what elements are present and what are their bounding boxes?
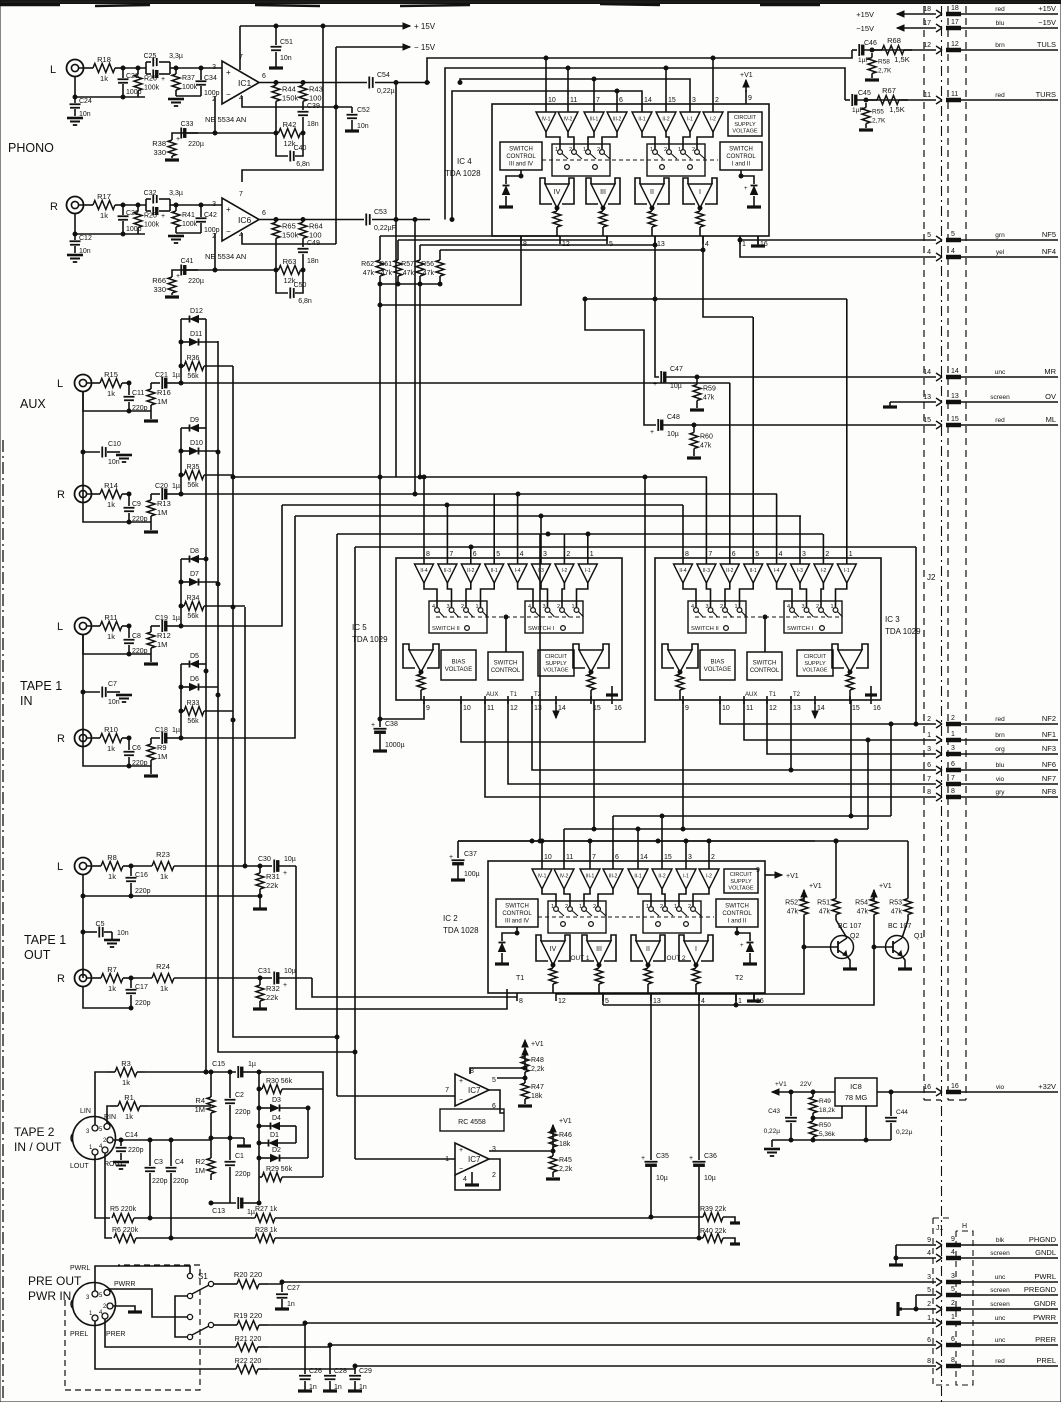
svg-text:L: L: [57, 621, 63, 633]
svg-text:I-4: I-4: [515, 568, 521, 574]
resistor R53: [889, 893, 912, 920]
resistor R6: [112, 1227, 255, 1243]
svg-text:7: 7: [449, 551, 453, 558]
wire R37 C34 ground: [168, 96, 201, 106]
svg-text:D10: D10: [190, 440, 203, 447]
IC 3 bottom pin 15: [850, 696, 860, 712]
svg-text:220p: 220p: [173, 1178, 189, 1185]
IC 4 input pin 6 buffer III-2: [607, 96, 627, 132]
svg-text:OUT 2: OUT 2: [666, 955, 685, 962]
ground rail L bar: [253, 896, 267, 909]
svg-text:R: R: [50, 201, 58, 213]
ground R12: [144, 654, 158, 664]
IC3 top pin riser 4: [776, 494, 778, 550]
svg-text:CONTROL: CONTROL: [726, 154, 756, 160]
IC4 pin 4 down to R56: [440, 236, 705, 252]
resistor R26: [136, 66, 140, 70]
svg-text:5: 5: [927, 232, 931, 239]
svg-text:R28 1k: R28 1k: [255, 1227, 278, 1234]
node C16: [129, 864, 133, 868]
svg-text:CIRCUIT: CIRCUIT: [730, 872, 753, 878]
wire R21 to PRER pin: [268, 1343, 936, 1347]
wire C37 top rail: [458, 839, 815, 843]
svg-text:5,36k: 5,36k: [819, 1131, 836, 1138]
IC2 pin 13 down to C35: [650, 993, 652, 1160]
IC 2 output amplifier IV: [536, 935, 570, 967]
resistor R31: [256, 866, 280, 896]
svg-text:3: 3: [447, 604, 450, 610]
svg-text:C29: C29: [359, 1368, 372, 1375]
svg-text:SWITCH II: SWITCH II: [691, 626, 719, 632]
svg-text:MR: MR: [1044, 367, 1056, 376]
resistor R28: [255, 1227, 699, 1243]
svg-text:10n: 10n: [357, 123, 369, 130]
IC 2 input pin 14 buffer II-1: [628, 853, 648, 889]
connector pin 2 NF2: [927, 714, 1058, 728]
IC block IC 3 TDA 1029 outline: [655, 558, 881, 700]
IC 5 buffer to switch wire: [481, 583, 495, 607]
svg-text:100k: 100k: [144, 85, 160, 92]
IC 4 switch box 2: [647, 144, 705, 176]
svg-text:II-2: II-2: [726, 568, 733, 574]
svg-text:R51: R51: [817, 900, 830, 907]
riser 916 to NF2: [914, 547, 918, 726]
capacitor C24: [67, 97, 92, 125]
connector dash-dot centre line: [941, 6, 943, 1402]
svg-text:C34: C34: [204, 75, 217, 82]
svg-text:18n: 18n: [307, 258, 319, 265]
IC 2 output amplifier II: [631, 935, 665, 967]
node after R18: [121, 66, 125, 70]
resistor R47: [521, 1078, 544, 1104]
+15V rail: [240, 22, 436, 31]
svg-text:IC1: IC1: [238, 78, 252, 88]
svg-text:III-1: III-1: [586, 873, 595, 879]
IC 4 buffer to switch wire: [546, 132, 560, 149]
+V1 arrow IC8 left: [772, 1081, 812, 1095]
svg-text:C27: C27: [287, 1285, 300, 1292]
wire AUX L signal: [181, 382, 730, 384]
wire tape1out R ground rail: [83, 987, 133, 1010]
wire +15V arrow left: [856, 10, 936, 19]
resistor R51: [817, 893, 840, 920]
capacitor C52: [345, 107, 370, 131]
resistor R62: [361, 252, 384, 284]
svg-text:C49: C49: [307, 240, 320, 247]
node R35 left: [179, 473, 183, 477]
svg-text:C5: C5: [96, 921, 105, 928]
diode D3: [257, 1097, 310, 1112]
svg-text:6: 6: [262, 210, 266, 217]
ground R60: [687, 456, 701, 459]
capacitor C12: [67, 234, 92, 262]
connector pin 12 TULS: [923, 40, 1058, 54]
svg-text:C33: C33: [181, 121, 194, 128]
svg-text:C24: C24: [79, 98, 92, 105]
IC7b ground pin4: [465, 1172, 479, 1185]
svg-text:1: 1: [583, 147, 586, 153]
svg-text:D8: D8: [190, 548, 199, 555]
IC3 pin 11 route NF1: [744, 700, 936, 740]
svg-text:+: +: [740, 943, 744, 949]
svg-text:C15: C15: [212, 1061, 225, 1068]
IC 2 switch dashed line: [538, 916, 714, 918]
IC 5 buffer to switch wire: [447, 583, 451, 607]
svg-text:I-2: I-2: [710, 116, 716, 122]
svg-text:C20: C20: [155, 483, 168, 490]
svg-text:10n: 10n: [117, 930, 129, 937]
wire TAPE1 R signal: [181, 516, 295, 738]
svg-text:3: 3: [692, 97, 696, 104]
IC 4 bottom pin 1: [740, 236, 746, 248]
svg-text:1: 1: [927, 1315, 931, 1322]
wire AUX L lower rail: [83, 392, 151, 413]
svg-text:2: 2: [927, 716, 931, 723]
svg-text:III and IV: III and IV: [505, 919, 529, 925]
IC 2 input pin 15 buffer II-2: [652, 853, 672, 889]
svg-text:SWITCH: SWITCH: [494, 660, 518, 666]
svg-text:I-2: I-2: [561, 568, 567, 574]
resistor R33: [181, 700, 233, 725]
svg-text:VOLTAGE: VOLTAGE: [728, 886, 753, 892]
svg-text:15: 15: [852, 705, 860, 712]
resistor R48: [521, 1050, 545, 1078]
resistor R61: [379, 252, 402, 284]
svg-text:4: 4: [951, 248, 955, 255]
svg-text:R60: R60: [700, 434, 713, 441]
IC 4 output amplifier IV: [540, 178, 574, 210]
svg-text:7: 7: [708, 551, 712, 558]
ground R58: [865, 78, 879, 81]
svg-text:2,2k: 2,2k: [559, 1166, 573, 1173]
svg-text:SUPPLY: SUPPLY: [545, 661, 567, 667]
svg-text:CIRCUIT: CIRCUIT: [734, 115, 757, 121]
svg-text:3: 3: [802, 604, 805, 610]
resistor R11: [93, 613, 129, 641]
capacitor C8: [124, 626, 148, 655]
IC 2 switch control I and II box: [716, 899, 758, 927]
svg-text:CONTROL: CONTROL: [502, 911, 532, 917]
svg-text:6: 6: [927, 1337, 931, 1344]
resistor R60 node: [692, 423, 696, 427]
resistor R27: [255, 1206, 651, 1223]
svg-text:100k: 100k: [182, 84, 198, 91]
capacitor C10: [81, 392, 132, 466]
svg-text:8: 8: [927, 789, 931, 796]
IC4 pin 12 down to R62: [380, 235, 560, 237]
svg-text:II-1: II-1: [638, 116, 645, 122]
IC5 top pin riser 4: [517, 494, 519, 550]
wire to C42: [176, 204, 222, 206]
svg-text:2: 2: [720, 604, 723, 610]
IC 2 input pin 3 buffer I-1: [676, 853, 696, 889]
svg-text:PRER: PRER: [106, 1331, 125, 1338]
wire R5 from LOUT: [95, 1155, 110, 1218]
svg-text:PWRR: PWRR: [114, 1281, 135, 1288]
svg-text:C12: C12: [79, 235, 92, 242]
svg-text:7: 7: [445, 1087, 449, 1094]
svg-text:C53: C53: [374, 209, 387, 216]
IC5 top pin riser 2: [563, 534, 565, 550]
IC5 top pin riser 6: [470, 547, 472, 550]
svg-text:4: 4: [432, 604, 435, 610]
svg-text:4: 4: [705, 241, 709, 248]
wire R4 R2 mid: [209, 1118, 213, 1152]
svg-text:100k: 100k: [182, 221, 198, 228]
IC5 top pin riser 7: [446, 505, 448, 550]
resistor R13: [147, 494, 171, 522]
page edge artifact top: [0, 0, 1061, 6]
node D11 left: [179, 340, 183, 344]
diode D9: [181, 417, 206, 432]
IC block IC 5 TDA 1029 outline: [396, 558, 622, 700]
svg-text:SUPPLY: SUPPLY: [734, 122, 756, 128]
svg-text:II-3: II-3: [444, 568, 451, 574]
svg-text:II-2: II-2: [658, 873, 665, 879]
svg-text:NF2: NF2: [1042, 714, 1056, 723]
svg-text:1µ: 1µ: [172, 483, 180, 490]
wire PHGND ground: [889, 1245, 936, 1265]
svg-text:2: 2: [688, 904, 691, 910]
connector pin 1 PWRR: [927, 1313, 1058, 1327]
svg-text:C14: C14: [125, 1132, 138, 1139]
IC 3 bottom pin 13: [791, 696, 801, 712]
resistor R12: [147, 626, 171, 654]
svg-text:2,7K: 2,7K: [872, 118, 886, 125]
switch S1: [187, 1272, 213, 1340]
svg-text:C3: C3: [154, 1159, 163, 1166]
svg-text:red: red: [995, 92, 1005, 99]
svg-text:R59: R59: [703, 386, 716, 393]
svg-text:4: 4: [779, 551, 783, 558]
svg-text:16: 16: [614, 705, 622, 712]
wire Q2 emitter ground: [843, 956, 857, 969]
wire IC4 pin 11 riser: [567, 68, 569, 96]
wire LIN to R3: [95, 1072, 107, 1125]
svg-text:C25: C25: [144, 53, 157, 60]
svg-text:12: 12: [769, 705, 777, 712]
IC2 pin 12 route: [555, 993, 557, 994]
resistor R9: [147, 738, 167, 766]
svg-text:+: +: [283, 982, 287, 989]
svg-text:3: 3: [706, 604, 709, 610]
resistor R40: [697, 1228, 740, 1244]
bus vertical from C54 node: [395, 83, 397, 478]
IC4 pin 16 ground: [751, 236, 765, 246]
IC3 top pin riser 7: [705, 477, 707, 550]
IC 3 input pin 6 buffer II-2: [720, 550, 739, 583]
bus line 547: [355, 545, 916, 1159]
IC5 top pin riser 1: [587, 534, 589, 550]
connector pin 16 +32V: [923, 1082, 1058, 1096]
connector pin 11 TURS: [924, 90, 1058, 104]
IC 4 buffer to switch wire: [683, 132, 690, 149]
svg-text:screen: screen: [990, 1301, 1010, 1308]
svg-text:AUX: AUX: [486, 692, 498, 698]
svg-text:+ 15V: + 15V: [414, 22, 436, 31]
svg-text:R8: R8: [107, 853, 117, 862]
svg-text:0,22µF: 0,22µF: [374, 225, 396, 232]
svg-text:2: 2: [951, 715, 955, 722]
svg-text:1k: 1k: [122, 1078, 130, 1087]
IC 2 bottom pin 8: [517, 993, 523, 1005]
IC 4 emitter resistor under IV: [553, 208, 561, 236]
svg-text:3,3µ: 3,3µ: [169, 53, 183, 60]
svg-text:47k: 47k: [403, 270, 415, 277]
svg-text:1k: 1k: [100, 211, 108, 220]
svg-text:C40: C40: [294, 145, 307, 152]
IC 5 pin 14 arrow: [555, 702, 557, 718]
wire NF4 from pin 1 column: [740, 240, 936, 257]
svg-text:1µ: 1µ: [172, 372, 180, 379]
svg-text:+V1: +V1: [786, 873, 799, 880]
op-amp IC1: [212, 54, 266, 104]
svg-text:7: 7: [927, 776, 931, 783]
ground R59: [690, 408, 704, 411]
capacitor C16: [126, 866, 151, 896]
connector dashed line right: [948, 6, 966, 1100]
svg-text:PWRR: PWRR: [1033, 1313, 1056, 1322]
TAPE1 L jack: [75, 618, 94, 635]
resistor R46: [549, 1127, 572, 1151]
svg-text:SWITCH II: SWITCH II: [432, 626, 460, 632]
svg-text:6: 6: [951, 1336, 955, 1343]
svg-text:TAPE 1: TAPE 1: [24, 933, 66, 947]
svg-text:C2: C2: [235, 1092, 244, 1099]
svg-text:+V1: +V1: [809, 883, 822, 890]
svg-text:330: 330: [153, 148, 166, 157]
resistor R3: [107, 1059, 145, 1087]
IC4 pin 13 down to R57: [420, 236, 657, 247]
wire Q2 base down route: [556, 945, 806, 994]
svg-text:+32V: +32V: [1038, 1082, 1056, 1091]
+V1 arrow IC7b: [550, 1118, 572, 1151]
IC 5 input pin 6 buffer II-2: [461, 550, 480, 583]
wire AUX R stack left rail: [180, 428, 182, 494]
IC 5 bottom pin 15: [591, 696, 601, 712]
svg-text:BIAS: BIAS: [452, 659, 466, 665]
svg-text:R46: R46: [559, 1132, 572, 1139]
capacitor C51: [269, 24, 293, 68]
capacitor C1: [225, 1138, 251, 1203]
IC 5 bottom pin 16: [612, 696, 622, 712]
svg-text:C39: C39: [307, 103, 320, 110]
svg-text:4: 4: [691, 604, 694, 610]
IC 4 output amplifier I: [683, 178, 717, 210]
diode D5: [181, 653, 206, 668]
svg-text:R12: R12: [157, 631, 171, 640]
svg-text:2,2k: 2,2k: [531, 1066, 545, 1073]
svg-text:3: 3: [951, 1273, 955, 1280]
wire C31 out to IC2 pin8: [312, 978, 517, 997]
riser 540 to bus: [538, 534, 542, 843]
svg-text:R18: R18: [97, 55, 111, 64]
IC4 pin 1 down to NF5: [738, 236, 936, 242]
wire feed line 91: [450, 89, 642, 222]
IC 2 bottom pin 4: [699, 993, 705, 1005]
svg-text:R: R: [57, 973, 65, 985]
IC 3 pin 16 ground: [865, 686, 877, 695]
svg-text:unc: unc: [995, 369, 1006, 376]
resistor R59: [693, 377, 716, 408]
IC2 top pin stubs: [542, 816, 709, 853]
ground R32: [253, 1007, 267, 1010]
wire R6 from ROUT: [105, 1153, 112, 1238]
bus line 534: [337, 532, 823, 1096]
svg-text:3: 3: [927, 1274, 931, 1281]
svg-text:3: 3: [543, 551, 547, 558]
IC 2 buffer to switch wire: [598, 889, 613, 906]
svg-text:R4: R4: [195, 1096, 205, 1105]
IC 5 pin 16 ground: [606, 686, 618, 695]
resistor R56: [421, 252, 444, 284]
wire IC1 pin4 to -15V: [242, 47, 352, 109]
capacitor C30: [258, 856, 296, 877]
svg-text:R68: R68: [887, 36, 901, 45]
IC 4 bottom pin 12: [560, 236, 570, 248]
svg-text:R14: R14: [104, 481, 118, 490]
svg-text:2: 2: [825, 551, 829, 558]
svg-text:+V1: +V1: [879, 883, 892, 890]
svg-text:TAPE 2: TAPE 2: [14, 1125, 55, 1139]
svg-text:C45: C45: [858, 90, 871, 97]
wire feedback R63: [213, 268, 278, 272]
IC 2 emitter resistor under IV: [549, 965, 557, 993]
svg-text:1µF: 1µF: [852, 107, 863, 114]
svg-text:1k: 1k: [107, 744, 115, 753]
svg-text:AUX: AUX: [20, 397, 46, 411]
capacitor C46: [852, 40, 936, 64]
wire IC7a feedback: [489, 1090, 504, 1113]
svg-text:C10: C10: [108, 441, 121, 448]
wire R3 to C15: [145, 1070, 236, 1074]
svg-text:C7: C7: [108, 681, 117, 688]
svg-text:CIRCUIT: CIRCUIT: [545, 654, 568, 660]
mid rail ground tape2: [211, 1136, 251, 1146]
IC 3 switch box I: [784, 601, 842, 633]
IC 3 buffer to switch wire: [725, 583, 730, 607]
IC 3 switch box II: [688, 601, 746, 633]
wire AUX L stack left rail: [180, 319, 182, 383]
IC 5 buffer to switch wire: [562, 583, 564, 607]
svg-text:L: L: [57, 861, 63, 873]
ground R45: [546, 1177, 560, 1180]
svg-text:1: 1: [476, 604, 479, 610]
svg-text:R32: R32: [266, 984, 280, 993]
bus horizontal R35 net: [233, 475, 707, 479]
svg-text:9: 9: [756, 867, 760, 874]
svg-text:−: −: [459, 1097, 463, 1104]
svg-text:5: 5: [492, 1077, 496, 1084]
svg-text:CONTROL: CONTROL: [491, 668, 521, 674]
svg-text:D3: D3: [272, 1097, 281, 1104]
DIN connector preout: [70, 1265, 135, 1338]
svg-text:TAPE 1: TAPE 1: [20, 679, 62, 693]
page border dash-dot left: [2, 440, 4, 1402]
svg-text:C46: C46: [864, 40, 877, 47]
svg-text:C36: C36: [704, 1153, 717, 1160]
svg-text:II-1: II-1: [750, 568, 757, 574]
IC 4 switch box 1: [552, 144, 610, 176]
svg-text:12: 12: [558, 998, 566, 1005]
svg-text:56k: 56k: [187, 373, 199, 380]
svg-text:R64: R64: [309, 221, 323, 230]
svg-text:14: 14: [951, 368, 959, 375]
svg-text:C41: C41: [181, 258, 194, 265]
resistor R22: [110, 1358, 268, 1374]
svg-text:1µF: 1µF: [858, 57, 869, 64]
svg-text:D7: D7: [190, 571, 199, 578]
